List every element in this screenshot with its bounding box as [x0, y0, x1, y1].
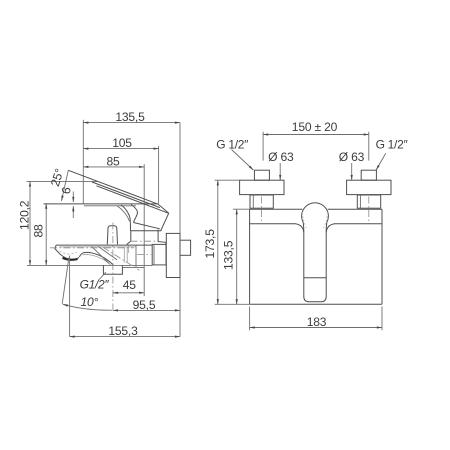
svg-text:120,2: 120,2	[18, 200, 32, 230]
svg-text:105: 105	[112, 136, 132, 150]
dim 155,3	[70, 324, 180, 338]
wall plane line	[179, 123, 181, 337]
dim 173,5	[203, 180, 250, 304]
diverter axis diagonal	[103, 247, 140, 270]
dim 135,5	[83, 110, 180, 204]
dome-to-strip neck right	[325, 223, 328, 233]
handle dome	[302, 203, 329, 223]
hand-shower stub under spout	[103, 265, 122, 274]
band bottom right	[334, 223, 382, 225]
body front S-curve	[121, 205, 131, 231]
spout hidden aerator arc	[60, 251, 77, 254]
lever handle third edge	[97, 186, 169, 214]
dim 105	[83, 136, 158, 203]
right nut front	[357, 195, 380, 208]
neck highlight dotted right	[323, 213, 327, 229]
spout centerline	[50, 247, 134, 249]
left supply stub	[254, 170, 269, 180]
svg-text:155,3: 155,3	[108, 324, 138, 338]
body lower edge	[131, 230, 162, 232]
diverter centerline vertical	[112, 223, 114, 314]
hidden vertical pair	[123, 247, 125, 263]
under-spout edge	[123, 266, 145, 268]
svg-text:133,5: 133,5	[222, 240, 236, 270]
dim 25deg ray	[48, 167, 68, 201]
svg-text:Ø 63: Ø 63	[339, 150, 365, 164]
diverter knob	[107, 226, 117, 245]
svg-text:150 ± 20: 150 ± 20	[292, 120, 338, 134]
strip rounded bottom	[304, 297, 326, 302]
svg-text:85: 85	[106, 155, 120, 169]
right flange front	[347, 180, 391, 194]
left flange front	[240, 180, 284, 194]
spout underside curve	[79, 252, 113, 265]
body top surface line	[44, 203, 159, 205]
svg-text:Ø 63: Ø 63	[268, 150, 294, 164]
svg-text:88: 88	[32, 224, 46, 238]
neck fillet left	[296, 224, 304, 233]
dome-to-strip neck left	[302, 223, 305, 233]
spout outlet mouth	[60, 254, 79, 259]
valve axis tick right	[368, 197, 370, 222]
valve axis tick	[261, 197, 263, 222]
mounting nut	[152, 244, 166, 265]
left nut front	[250, 195, 273, 208]
handle strip right side	[325, 233, 327, 297]
lever rear face	[161, 213, 169, 231]
label G1/2 side	[80, 272, 110, 292]
dim 150 +- 20	[263, 120, 369, 160]
spout form line 2	[98, 246, 117, 259]
dim 183	[250, 307, 382, 331]
svg-text:G1/2″: G1/2″	[80, 278, 110, 292]
body small vertical	[128, 245, 130, 253]
wall flange (escutcheon) side	[166, 233, 180, 277]
dim 88	[32, 204, 47, 266]
lever bottom diagonal	[134, 223, 160, 229]
valve centerline lower	[137, 253, 151, 255]
valve block right face	[158, 230, 166, 245]
neck fillet right	[326, 224, 334, 233]
svg-text:135,5: 135,5	[115, 110, 145, 124]
right supply stub	[361, 170, 376, 180]
lever handle top edge	[68, 170, 158, 204]
dim 95,5	[113, 298, 180, 312]
band bottom left	[250, 223, 296, 225]
dim 45	[113, 278, 144, 293]
body outline front	[250, 209, 382, 304]
G1/2 wall connection stub	[180, 240, 191, 255]
label G 1/2 front left	[216, 138, 253, 170]
dim 120,2	[18, 181, 98, 265]
dim 133,5	[222, 209, 250, 304]
svg-text:G 1/2″: G 1/2″	[376, 138, 409, 152]
spout outlet dark lip	[63, 258, 78, 260]
label G 1/2 front right	[376, 138, 409, 170]
spout top inner edge	[59, 246, 136, 248]
valve block left face with chamfer	[127, 231, 131, 245]
svg-text:173,5: 173,5	[203, 229, 217, 259]
bottom reference line	[27, 264, 152, 266]
svg-text:95,5: 95,5	[133, 298, 156, 312]
svg-text:G 1/2″: G 1/2″	[216, 138, 249, 152]
body front S-curve inner	[117, 206, 130, 222]
dim 10deg	[62, 256, 112, 337]
cartridge bulge contour	[131, 205, 137, 223]
lever rear top fold	[158, 204, 169, 213]
handle strip left side	[303, 233, 305, 297]
dim diameter 63 left	[268, 150, 294, 180]
hidden vertical pair 2	[126, 247, 128, 263]
dim diameter 63 right	[339, 150, 365, 180]
handle tip line	[304, 277, 326, 279]
neck highlight dotted left	[302, 213, 306, 229]
lever handle second edge	[92, 182, 160, 208]
spout underside inner curve	[83, 255, 112, 266]
svg-text:183: 183	[307, 315, 327, 329]
spout form line 1	[92, 246, 110, 263]
valve centerline upper	[131, 240, 158, 242]
dim 6	[59, 185, 74, 218]
svg-text:45: 45	[123, 278, 137, 292]
body top second line	[84, 205, 136, 207]
svg-text:10°: 10°	[80, 295, 98, 309]
dim 85	[83, 155, 144, 297]
spout top edge	[56, 244, 152, 246]
spout tip face	[55, 245, 60, 254]
body mid vertical	[135, 245, 137, 267]
